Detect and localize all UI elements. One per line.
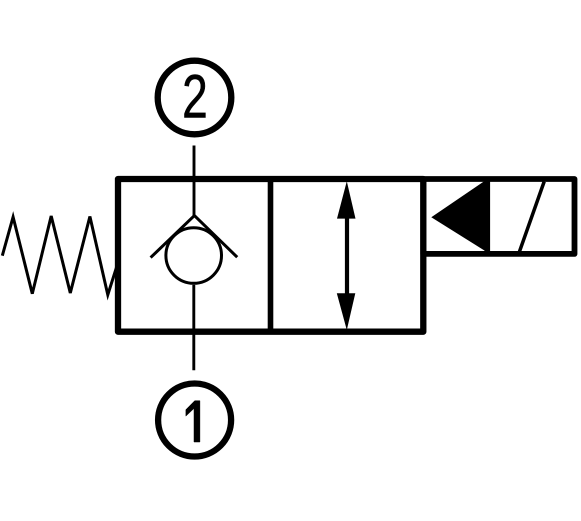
check valve ball xyxy=(166,228,222,284)
check valve seat right wing xyxy=(194,216,237,258)
solenoid box xyxy=(423,179,574,254)
flow direction double arrow shaft xyxy=(345,205,349,305)
wire from check valve ball to port 1 xyxy=(192,285,195,371)
wire from port 2 to valve seat xyxy=(193,146,196,216)
port 2 circle xyxy=(158,61,232,135)
solenoid coil divider xyxy=(484,179,490,254)
svg-text:2: 2 xyxy=(182,62,208,131)
port 2 label "2" xyxy=(182,62,208,131)
port 1 label "1" xyxy=(186,401,200,442)
solenoid coil diagonal stroke xyxy=(519,182,544,253)
valve body envelope (two-position box) xyxy=(118,179,423,332)
flow arrow bottom head xyxy=(337,293,356,330)
check valve seat left wing xyxy=(151,216,195,258)
return spring xyxy=(2,216,118,295)
port 1 circle xyxy=(158,384,231,457)
solenoid armature triangle xyxy=(431,180,486,252)
flow arrow top head xyxy=(337,181,356,218)
position divider line xyxy=(268,179,274,332)
